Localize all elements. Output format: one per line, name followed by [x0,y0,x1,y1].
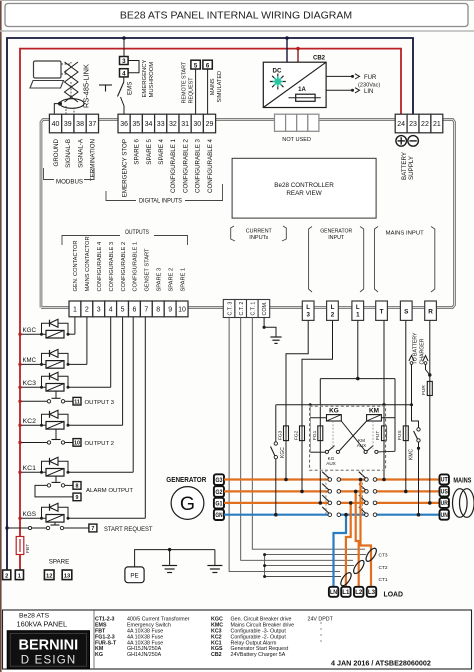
generator G symbol [171,487,204,520]
svg-text:Be28 ATS: Be28 ATS [19,613,50,620]
terminal 3 [120,57,129,66]
label date and drawing number [331,659,431,668]
svg-text:GENERATOR: GENERATOR [320,228,352,234]
svg-text:3: 3 [122,58,126,65]
svg-text:CONFIGURABLE 2: CONFIGURABLE 2 [121,242,127,292]
fuse 1A inside CB2 [289,87,321,101]
wire: coil circuit control bus [276,403,419,452]
svg-text:5: 5 [194,63,198,70]
svg-text:KC3: KC3 [23,380,37,387]
wire: load phase L1 drop from row G1-UR (orange) [346,501,353,587]
svg-text:LIN: LIN [364,89,373,95]
terminal PE protective earth box [125,567,144,583]
svg-text:C.T. 3: C.T. 3 [227,302,233,316]
svg-text:T: T [380,309,384,316]
svg-text:NOT USED: NOT USED [282,137,311,143]
label FBT [25,544,31,553]
svg-text:7: 7 [144,307,148,314]
svg-text:10: 10 [178,307,186,314]
battery charger CB2 box [263,56,326,108]
svg-text:GENSET START: GENSET START [145,248,151,292]
svg-text:LOAD: LOAD [384,590,404,599]
scan edge artifact left [0,0,2,672]
terminal L2 (generator input) [327,301,339,320]
wire: terminal 6 to terminal 29 [207,69,209,114]
wire: C.T.1 terminal to CT3 transformer [252,318,365,550]
svg-text:MAINS: MAINS [453,476,471,485]
wire: jumper strap terminal 3 to terminal 4 [128,61,139,73]
svg-text:L2: L2 [355,589,363,596]
node: EMS feed junction on navy rail [122,36,126,40]
wire: terminal 5 to terminal 30 [195,69,197,114]
svg-text:MAINS CONTACTOR: MAINS CONTACTOR [85,236,91,291]
svg-text:OUTPUT 3: OUTPUT 3 [85,400,115,406]
svg-text:G1: G1 [215,500,223,507]
svg-text:SIMULATED: SIMULATED [217,71,223,103]
svg-text:REMOTE START: REMOTE START [182,61,188,103]
auxiliary contact KM AUX [357,421,395,454]
svg-text:REQUEST: REQUEST [189,77,195,104]
wire: terminal 7 to relay KGS [144,317,146,519]
terminal UN mains neutral [440,510,449,520]
wire: battery plus rail (red) from terminal 24 across top and down left side to fuse FBT [20,49,401,537]
svg-text:30: 30 [193,121,201,128]
svg-text:5: 5 [121,307,125,314]
wire+fuse FUR: terminal R to row UR [421,320,433,504]
svg-text:FUT: FUT [375,431,381,440]
svg-text:SPARE 5: SPARE 5 [146,138,153,164]
label LOAD [384,590,404,599]
svg-text:36: 36 [120,121,128,128]
svg-text:MUSHROOM: MUSHROOM [149,62,155,98]
node: CB2 feed junction on red rail [296,47,300,51]
contactor KG main contacts (generator side) [322,470,340,517]
svg-text:KMC: KMC [409,449,415,461]
wire: red rail below FBT fuse to terminal 1 [19,555,21,571]
terminal strip 1-10 (outputs) [69,301,188,317]
svg-text:INPUT: INPUT [328,235,344,241]
svg-text:KM: KM [369,408,379,415]
label KC2 [23,418,37,425]
svg-text:KGC: KGC [23,327,37,334]
svg-text:G: G [180,493,195,515]
wire+fuse FUS: terminal S to row US [397,320,409,493]
DC green star indicator [270,74,286,90]
wire: CB2 output FUR 230Vac with arrow [326,74,359,79]
wire: battery charger tap from R phase with arrow [423,356,430,376]
label EMS [127,82,134,95]
svg-text:SPARE: SPARE [49,559,70,566]
contactor coil KM [367,408,395,421]
svg-text:START REQUEST: START REQUEST [104,526,153,533]
wire: dashed drops from connector into terminals 39 and 38 [66,82,74,114]
svg-text:13: 13 [64,574,71,580]
mains supply symbol (double ellipse) [453,489,474,518]
switch EMS emergency mushroom contact [99,77,124,114]
terminal L1 (generator input) [352,301,364,320]
label KMC [23,357,37,364]
terminal G1 generator phase [214,498,224,509]
wire: L1 feed to contactor coil circuit [320,320,395,451]
svg-text:OUTPUT 2: OUTPUT 2 [85,441,115,447]
svg-text:2: 2 [331,312,335,319]
relay KC1 coil with suppression diode [18,457,133,476]
label FUR (230Vac) [358,75,380,88]
svg-text:2: 2 [5,574,8,580]
terminal strip 40-37 (MODBUS) [49,114,98,133]
wire: load neutral LN drop from row GN-UN (blue) [334,513,348,587]
svg-text:CONFIGURABLE 4: CONFIGURABLE 4 [207,138,214,193]
svg-text:4: 4 [122,71,126,78]
terminal strip NOT USED [275,114,319,131]
terminal 5 [191,60,200,69]
RS-485 twisted pair symbol [65,62,79,102]
wire+fuse FG2: terminal L2 to row G2 [294,320,333,493]
svg-text:9: 9 [168,307,172,314]
terminal 13 (spare) [62,570,72,580]
ground symbol 2 at earth bus end [207,550,222,573]
svg-text:(230Vac): (230Vac) [358,82,380,88]
svg-text:AUX: AUX [326,461,335,466]
svg-text:CONFIGURABLE 1: CONFIGURABLE 1 [170,138,177,193]
svg-text:CB2: CB2 [313,56,326,62]
svg-text:4: 4 [109,307,113,314]
svg-text:FUR: FUR [421,385,427,395]
svg-text:38: 38 [76,121,84,128]
wire: navy drop to CB2 box [286,38,288,62]
relay KC3 coil with suppression diode [18,372,110,391]
terminal 2 (battery minus out) [3,570,11,580]
terminal L3 load [367,587,376,597]
wire: CT common return bus [263,553,366,578]
svg-text:DC: DC [273,68,282,75]
svg-text:L3: L3 [368,589,376,596]
svg-text:FG2: FG2 [294,430,300,440]
svg-text:1: 1 [73,307,77,314]
svg-text:8: 8 [76,484,79,490]
terminal 12 (spare) [44,570,54,580]
contactor coil KG [310,408,341,421]
bracket GENERATOR INPUT group [309,227,364,293]
logo BERNINI DESIGN [7,631,89,669]
svg-text:TERMINATION: TERMINATION [90,139,97,181]
contact KC1 alarm output terminals 8 and 9 [35,476,133,501]
bracket DIGITAL INPUTS group [106,184,223,205]
svg-text:3: 3 [306,312,310,319]
svg-text:1A: 1A [298,87,306,93]
svg-text:34: 34 [145,121,153,128]
svg-text:40: 40 [52,121,60,128]
terminal R (mains input) [425,301,437,320]
svg-text:DIGITAL INPUTS: DIGITAL INPUTS [139,198,182,205]
wire: C.T.3 terminal to CT1 transformer [229,318,340,572]
label NOT USED [282,137,311,143]
terminal 4 [120,69,129,78]
svg-text:32: 32 [169,121,177,128]
separator line under title [0,30,474,32]
svg-text:R: R [428,309,433,316]
bracket CURRENT INPUTs group [231,226,287,241]
svg-text:CONFIGURABLE 3: CONFIGURABLE 3 [195,138,202,193]
svg-text:SPARE 6: SPARE 6 [134,138,141,164]
labels digital input terminals 36-29 [121,138,213,197]
bracket OUTPUTS group [62,229,188,245]
fuse FBT on battery plus rail [16,537,24,555]
terminal G2 generator phase [214,486,224,497]
terminal US mains phase [440,486,449,496]
wire: COM terminal to signal ground [263,318,277,338]
contact KC3 output 3 with terminal 11 [18,391,114,406]
dashed enclosure around contactor coils [310,406,386,470]
svg-text:KGC: KGC [280,447,286,458]
relay KC2 coil with suppression diode [18,410,122,429]
wire: load phase L2 drop from row G2-US (orange) [354,490,359,587]
svg-text:REAR VIEW: REAR VIEW [286,190,321,197]
svg-text:160kVA PANEL: 160kVA PANEL [17,620,68,629]
svg-text:FG1: FG1 [312,430,318,440]
laptop computer icon [30,61,64,88]
svg-text:KG: KG [95,652,103,658]
terminal strip 24-21 (battery supply) [395,114,443,133]
svg-text:C.T. 2: C.T. 2 [239,302,245,316]
wire: CB2 output LIN with arrow [326,88,359,93]
svg-text:3: 3 [97,307,101,314]
svg-text:LN: LN [330,589,337,596]
svg-text:BATTERY: BATTERY [401,152,408,180]
signal ground symbol (COM) [270,337,281,343]
svg-text:GENERATOR: GENERATOR [166,475,207,484]
svg-text:SPARE 3: SPARE 3 [157,268,163,292]
wire: red drop to CB2 box [297,49,299,63]
terminal UR mains phase [440,498,449,508]
wire: load phase L3 drop from row G3-UT (orange) [359,478,371,587]
wire: terminal 6 to relay KC1 [132,317,134,473]
Be28 controller rear view box [232,158,376,218]
wire: battery minus rail (navy) from terminal 23 across top and down left side to terminal 2 [7,38,413,570]
wire: PE box to earth bus [135,550,215,567]
svg-text:”: ” [320,640,322,646]
svg-text:6: 6 [132,307,136,314]
svg-text:22: 22 [421,121,429,128]
current transformer CT1 on load L1 [339,571,388,587]
auxiliary contact KG AUX [325,421,339,466]
wire: generator phase row G2-US (orange) [224,490,440,492]
wire+fuse FG3: terminal L3 to row G3 [278,320,309,481]
wire: navy rail to terminal 3 [123,38,125,57]
svg-text:4 JAN 2016 / ATSBE28060002: 4 JAN 2016 / ATSBE28060002 [331,659,431,668]
svg-text:MODBUS: MODBUS [56,179,83,186]
svg-text:FUS: FUS [397,430,403,440]
svg-text:US: US [441,489,448,496]
svg-text:CONFIGURABLE 2: CONFIGURABLE 2 [182,138,189,193]
label KC1 [23,465,37,472]
svg-text:FUR: FUR [364,75,377,81]
wire: terminal 2 to relay KMC [86,317,88,365]
svg-text:1: 1 [356,312,360,319]
svg-text:CT2: CT2 [379,565,388,571]
wire+fuse FUT: terminal T to row UT [375,320,387,481]
svg-text:21: 21 [433,121,441,128]
svg-text:MAINS: MAINS [210,78,216,95]
svg-text:GN: GN [215,512,222,519]
labels GROUND SIGNAL-B SIGNAL-A TERMINATION (MODBUS terminals) [53,138,97,181]
svg-text:39: 39 [64,121,72,128]
svg-text:EMS: EMS [127,82,134,95]
wire: interlock cross KG coil to KM aux [341,421,365,451]
label BATTERY SUPPLY [401,152,415,180]
relay KGC coil with suppression diode [18,319,75,338]
svg-text:KG: KG [329,408,339,415]
svg-text:KC2: KC2 [23,418,37,425]
label SPARE [49,559,70,566]
svg-text:24VBattery Charger 5A: 24VBattery Charger 5A [231,652,286,658]
footer data block frame [3,610,472,669]
wire: terminal 5 to relay KC2 [122,317,124,426]
svg-text:SIGNAL-A: SIGNAL-A [77,138,84,168]
wire: battery charger tap from T phase with arrow [409,356,414,405]
svg-text:UR: UR [441,500,449,507]
label KGS [23,511,37,518]
current transformer CT2 on load L2 [352,559,388,575]
wire: connector to terminal 40 [54,104,60,115]
svg-text:INPUTs: INPUTs [249,235,268,241]
svg-text:TO BATTERY: TO BATTERY [413,332,419,365]
svg-text:G2: G2 [215,489,223,496]
svg-text:9: 9 [76,495,79,501]
svg-text:CURRENT: CURRENT [246,228,272,234]
contactor KM main contacts (mains side) [359,470,377,517]
svg-text:24: 24 [397,121,405,128]
terminal L2 load [354,587,363,597]
svg-text:Be28 CONTROLLER: Be28 CONTROLLER [274,182,334,189]
svg-text:L: L [356,304,360,311]
svg-text:SIGNAL-B: SIGNAL-B [65,139,72,168]
label GENERATOR [166,475,207,484]
legend component list [95,617,334,658]
svg-text:7: 7 [91,526,94,532]
svg-text:ALARM OUTPUT: ALARM OUTPUT [86,488,133,494]
svg-text:SUPPLY: SUPPLY [408,156,415,180]
svg-text:11: 11 [74,399,80,405]
svg-text:CONFIGURABLE 4: CONFIGURABLE 4 [97,242,103,292]
svg-text:37: 37 [88,121,96,128]
terminal strip C.T.3 C.T.2 C.T.1 COM [223,300,269,318]
svg-text:8: 8 [156,307,160,314]
wire: interlock cross KM coil to KG aux [340,421,367,451]
svg-text:2: 2 [85,307,89,314]
scan edge artifact top [0,0,474,2]
label DC with indicator [273,68,282,75]
svg-text:CHARGER: CHARGER [420,338,426,364]
label KGC [23,327,37,334]
svg-text:KC1: KC1 [23,465,37,472]
svg-text:35: 35 [132,121,140,128]
svg-text:L: L [306,304,310,311]
wire: C.T.2 terminal to CT2 transformer [241,318,353,561]
controller panel border (gray) [41,120,455,308]
terminal G3 generator phase [214,474,224,485]
svg-text:GROUND: GROUND [53,138,60,166]
svg-text:CB2: CB2 [211,652,222,658]
svg-text:10: 10 [74,441,80,447]
bracket MAINS INPUT group [375,227,435,293]
wire: generator phase row G1-UR (orange) [224,502,440,504]
svg-text:CT1: CT1 [379,577,388,583]
svg-text:FG3: FG3 [278,430,284,440]
wire: generator phase row G3-UT (orange) [224,478,440,480]
svg-text:L1: L1 [342,589,350,596]
battery plus symbol [396,136,407,147]
current transformer CT3 on load L3 [364,547,388,563]
svg-text:PE: PE [130,573,138,580]
relay KGS coil with suppression diode [18,503,145,522]
svg-text:29: 29 [206,121,214,128]
svg-text:SPARE 2: SPARE 2 [168,268,174,292]
wire: terminal 1 to relay KGC [74,317,76,334]
node: earth bus junction at ground 1 [168,548,171,551]
bracket MODBUS group [44,168,95,186]
svg-text:6: 6 [206,63,210,70]
svg-text:AUX: AUX [357,443,366,448]
svg-text:OUTPUTS: OUTPUTS [125,229,149,236]
svg-text:FBT: FBT [25,544,31,553]
contact KGS start request with terminal 7 [5,522,152,533]
wire: terminal 4 to relay KC3 [110,317,112,388]
terminal L1 load [341,587,350,597]
relay KMC coil with suppression diode [18,349,87,368]
svg-text:C.T. 1: C.T. 1 [251,302,257,316]
label Be28 ATS 160kVA PANEL [17,613,68,629]
contact KMC mains breaker drive [409,428,421,517]
svg-text:UT: UT [441,477,448,484]
svg-text:L: L [331,304,335,311]
svg-text:SPARE 4: SPARE 4 [158,138,165,164]
terminal 6 [203,60,212,69]
label EMERGENCY MUSHROOM [142,59,155,97]
svg-text:GEN. CONTACTOR: GEN. CONTACTOR [73,241,79,292]
wire+fuse FG1: L1 feed line to row G1 [312,379,323,505]
svg-text:S: S [404,309,409,316]
title bar: BE28 ATS PANEL INTERNAL WIRING DIAGRAM [5,4,468,27]
terminal strip 36-29 (digital inputs) [118,114,216,133]
terminal LN load neutral [329,587,338,597]
svg-text:D ESIGN: D ESIGN [21,655,77,667]
node: CB2 DC feed junction on navy rail [285,36,289,40]
svg-text:23: 23 [409,121,417,128]
svg-text:CONFIGURABLE 1: CONFIGURABLE 1 [133,242,139,292]
connector ellipse to MODBUS terminals [58,99,84,109]
terminal L3 (generator input) [302,301,314,320]
ground symbol 1 [162,550,177,573]
terminal UT mains phase [440,474,449,484]
svg-text:BERNINI: BERNINI [18,638,78,654]
label MAINS [453,476,471,485]
svg-text:GH14JN/250A: GH14JN/250A [127,652,162,658]
wire: dashed link laptop to RS-485 twisted pair [61,62,71,74]
terminal S (mains input) [400,301,412,320]
contact KC2 output 2 with terminal 10 [18,429,114,447]
svg-text:KMC: KMC [23,357,37,364]
svg-text:BE28 ATS PANEL INTERNAL WIRING: BE28 ATS PANEL INTERNAL WIRING DIAGRAM [120,10,352,22]
wire: neutral row GN-UN (blue) [224,514,440,516]
svg-text:31: 31 [181,121,189,128]
svg-text:UN: UN [441,512,448,519]
svg-text:KGS: KGS [23,511,37,518]
svg-text:CT3: CT3 [379,553,388,559]
terminal GN generator neutral [214,509,224,520]
label REMOTE START REQUEST [182,61,195,103]
label LIN [364,89,373,95]
